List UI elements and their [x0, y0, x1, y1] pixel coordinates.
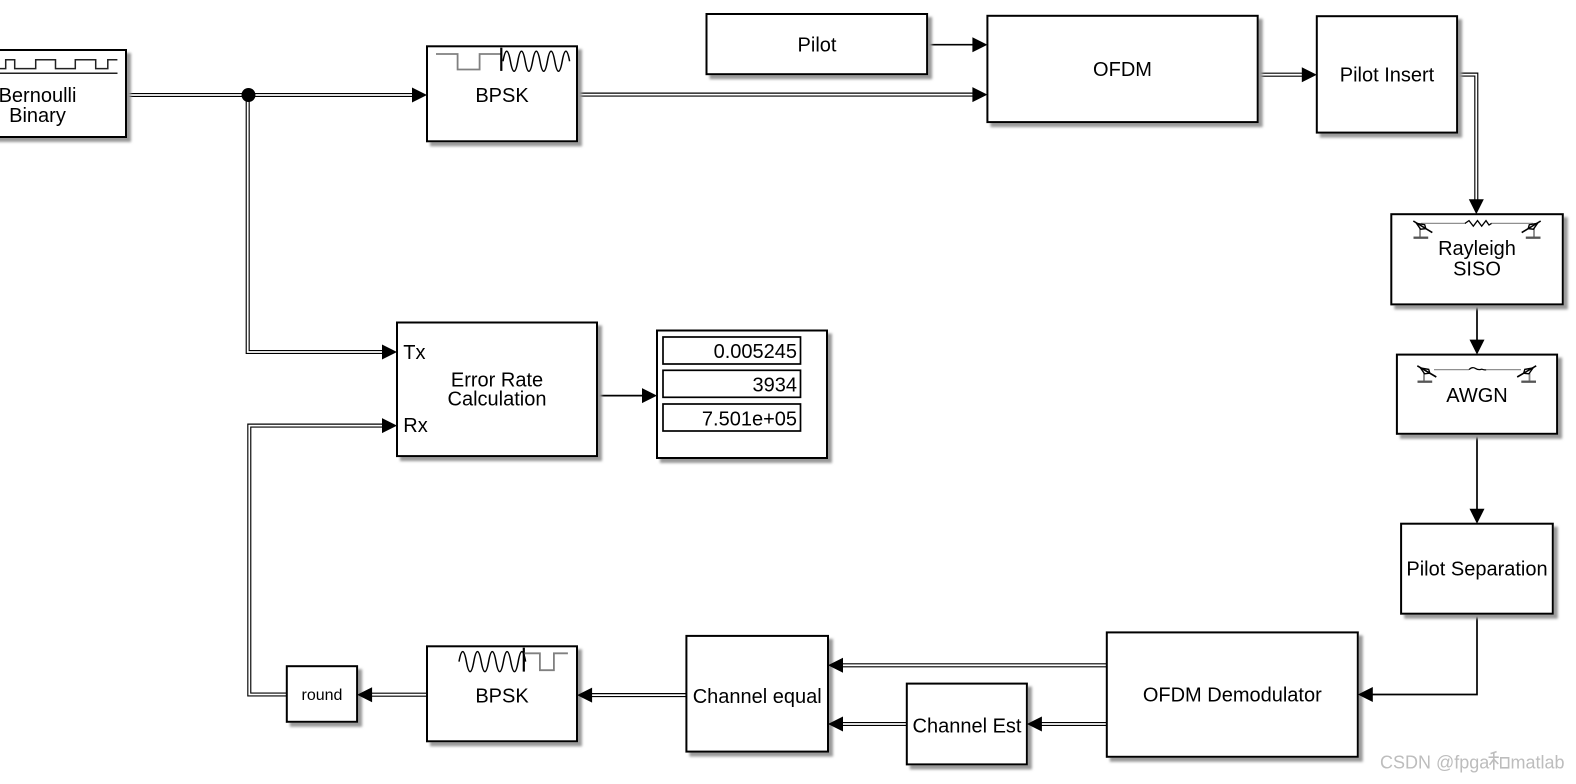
- block BPSK modulator: [427, 46, 577, 141]
- svg-text:round: round: [302, 687, 343, 704]
- svg-text:OFDM: OFDM: [1093, 59, 1152, 81]
- watermark CSDN: [1380, 752, 1565, 773]
- svg-text:7.501e+05: 7.501e+05: [702, 408, 797, 430]
- svg-text:Bernoulli: Bernoulli: [0, 85, 76, 107]
- svg-text:3934: 3934: [753, 375, 798, 397]
- block OFDM Demodulator: [1107, 632, 1358, 756]
- block Pilot Separation: [1401, 524, 1553, 614]
- svg-text:Channel equal: Channel equal: [693, 686, 822, 708]
- svg-text:SISO: SISO: [1453, 258, 1501, 280]
- block Pilot source: [707, 14, 928, 74]
- arrowhead into Error Rate Tx: [382, 345, 397, 360]
- block round function: [287, 666, 357, 722]
- wire W8 AWGN to Pilot Separation: [1476, 434, 1478, 510]
- wire W5 OFDM to Pilot Insert: [1258, 73, 1303, 77]
- block Pilot Insert: [1317, 16, 1457, 132]
- block Rayleigh SISO channel: [1391, 214, 1563, 304]
- wire W2 junction down to Error Rate Tx: [248, 95, 384, 352]
- block Error Rate Calculation: [397, 323, 597, 457]
- arrowhead into Pilot Separation: [1470, 509, 1485, 524]
- junction node on Bernoulli output: [242, 88, 256, 102]
- svg-text:BPSK: BPSK: [475, 85, 529, 107]
- wire W15 round up to Error Rate Rx: [249, 426, 384, 695]
- svg-text:Pilot Insert: Pilot Insert: [1340, 65, 1435, 87]
- svg-text:Calculation: Calculation: [448, 388, 547, 410]
- block Channel Est: [907, 684, 1027, 765]
- svg-text:BPSK: BPSK: [475, 685, 529, 707]
- svg-text:Channel Est: Channel Est: [913, 716, 1022, 738]
- arrowhead into OFDM Demodulator: [1358, 687, 1373, 702]
- block OFDM modulator subsystem: [987, 16, 1257, 122]
- block Bernoulli Binary generator: [0, 50, 126, 137]
- arrowhead into Channel Est: [1027, 717, 1042, 732]
- svg-text:Pilot Separation: Pilot Separation: [1406, 559, 1547, 581]
- wire W16 Error Rate to Display: [597, 395, 644, 397]
- arrowhead into OFDM input 1: [972, 37, 987, 52]
- svg-text:CSDN @fpga: CSDN @fpga: [1380, 753, 1490, 773]
- arrowhead into Pilot Insert: [1302, 67, 1317, 82]
- block Channel equal: [686, 636, 828, 752]
- wire W9 Pilot Separation to OFDM Demodulator: [1371, 614, 1477, 695]
- svg-text:OFDM Demodulator: OFDM Demodulator: [1143, 685, 1322, 707]
- svg-text:Pilot: Pilot: [798, 35, 837, 57]
- arrowhead into BPSK modulator: [412, 88, 427, 103]
- wire W4 Pilot to OFDM: [927, 44, 974, 46]
- block Display: [657, 331, 827, 459]
- svg-text:matlab: matlab: [1511, 753, 1565, 773]
- wire W13 Channel equal to BPSK demod: [590, 693, 686, 697]
- svg-text:Tx: Tx: [403, 342, 425, 364]
- arrowhead into OFDM input 2: [972, 87, 987, 102]
- arrowhead into Error Rate Rx: [382, 418, 397, 433]
- wire W14 BPSK demod to round: [370, 693, 427, 697]
- svg-text:Rayleigh: Rayleigh: [1438, 238, 1516, 260]
- wire W1 Bernoulli to BPSK: [126, 93, 414, 97]
- svg-text:Rx: Rx: [403, 415, 427, 437]
- arrowhead into Channel equal lower: [828, 717, 843, 732]
- svg-text:0.005245: 0.005245: [714, 341, 797, 363]
- wire W12 Channel Est to Channel equal lower: [841, 722, 907, 726]
- arrowhead into Rayleigh SISO: [1469, 199, 1484, 214]
- arrowhead into round: [357, 687, 372, 702]
- wire W7 Rayleigh SISO to AWGN: [1476, 304, 1478, 341]
- arrowhead into Display: [642, 388, 657, 403]
- arrowhead into Channel equal upper: [828, 658, 843, 673]
- svg-text:AWGN: AWGN: [1446, 385, 1507, 407]
- block AWGN channel: [1397, 355, 1557, 434]
- arrowhead into BPSK demodulator: [577, 688, 592, 703]
- arrowhead into AWGN: [1470, 340, 1485, 355]
- svg-text:Binary: Binary: [9, 105, 66, 127]
- wire W3 BPSK to OFDM: [577, 93, 974, 97]
- wire W11 OFDM Demodulator to Channel Est: [1040, 722, 1107, 726]
- wire W6 Pilot Insert to Rayleigh SISO: [1457, 75, 1476, 201]
- block BPSK demodulator: [427, 646, 577, 741]
- wire W10 OFDM Demodulator to Channel equal upper: [841, 663, 1107, 667]
